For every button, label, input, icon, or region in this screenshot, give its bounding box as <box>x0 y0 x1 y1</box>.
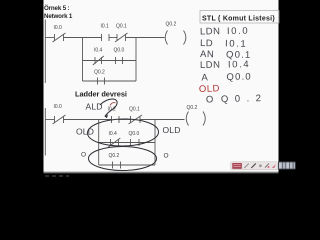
bottom ladder: rung1 wire left <box>45 119 54 121</box>
bottom ladder: contact Q0.0 (NO) <box>131 139 140 146</box>
white slide area <box>44 0 279 174</box>
top ladder: contact Q0.2 (NO) <box>98 78 105 85</box>
annotation ellipse E2 around branch3 <box>89 147 157 171</box>
top ladder: contact Q0.1 (NC) <box>115 33 128 42</box>
STL panel title box <box>200 11 279 24</box>
bottom ladder: contact I0.4 (NC) <box>108 138 120 147</box>
video black background <box>0 0 320 180</box>
svg-text:Ladder devresi: Ladder devresi <box>75 90 127 99</box>
bottom ladder: junction R vertical <box>154 120 156 166</box>
top ladder: wire contact I0.0 to contact I0.1 <box>64 37 102 39</box>
top ladder: output coil Q0.2 <box>165 31 186 45</box>
toolbar icon gray dot <box>259 164 262 167</box>
svg-text:STL ( Komut Listesi): STL ( Komut Listesi) <box>202 16 275 23</box>
svg-text:Q0.1: Q0.1 <box>116 24 127 30</box>
annotation ellipse E1 around branch1+branch2 <box>87 118 158 146</box>
ALD arrowhead <box>105 114 108 118</box>
toolbar right segment over black <box>278 162 296 170</box>
toolbar icon red pen <box>232 163 242 169</box>
top ladder: wire I0.1 to Q0.1 <box>109 37 117 39</box>
svg-text:O: O <box>81 152 86 159</box>
bottom ladder: contact Q0.2 (NO) <box>113 162 121 169</box>
svg-text:Q0.0: Q0.0 <box>129 131 140 137</box>
svg-text:Q0.2: Q0.2 <box>94 70 105 76</box>
bottom ladder: branch2 wire <box>99 142 155 144</box>
svg-text:I0.4: I0.4 <box>94 48 103 54</box>
toolbar icon pencil <box>244 164 249 168</box>
bottom ladder: contact I0.2 (NO) <box>112 116 120 123</box>
bottom ladder: output coil Q0.2 <box>186 112 205 126</box>
svg-text:Q0.0: Q0.0 <box>114 48 125 54</box>
svg-text:I0.4: I0.4 <box>109 131 118 137</box>
svg-text:O: O <box>164 153 169 160</box>
top ladder: contact I0.4 (NC) <box>93 56 104 65</box>
toolbar icon dark slash with pink dot <box>265 164 269 168</box>
top ladder: branch3 wire <box>83 80 137 82</box>
ALD arrow curve <box>100 99 117 117</box>
top ladder: junction A vertical <box>82 38 84 82</box>
top ladder: wire Q0.1 to coil <box>126 37 165 39</box>
svg-text:I0.0: I0.0 <box>54 25 63 31</box>
top ladder: rung1 wire left <box>45 37 54 39</box>
top ladder: contact I0.1 (NO) <box>102 34 110 41</box>
top ladder: contact Q0.0 (NO) <box>116 57 123 64</box>
red pen tick above I0.2 <box>110 103 116 106</box>
bottom ladder: branch3 wire <box>99 164 155 166</box>
svg-text:Network 1: Network 1 <box>44 13 73 20</box>
bottom ladder: wire I0.0 to I0.1 <box>64 119 112 121</box>
toolbar icon pen2 <box>251 163 256 168</box>
bottom ladder: contact Q0.1 (NC) <box>129 115 143 124</box>
bottom ladder: wire I0.2 to Q0.1 <box>119 119 131 121</box>
svg-text:Q0.1: Q0.1 <box>129 106 140 112</box>
bottom ladder: wire Q0.1 to coil <box>140 119 185 121</box>
bottom ladder: junction L vertical <box>98 120 100 166</box>
toolbar icon pink arrow <box>272 164 276 168</box>
top ladder: contact I0.0 (NC) <box>53 33 66 42</box>
svg-text:OLD: OLD <box>199 83 220 95</box>
svg-text:ALD: ALD <box>86 102 103 112</box>
bottom ladder: contact I0.0 (NC) <box>53 115 66 124</box>
svg-text:OLD: OLD <box>163 125 181 135</box>
top ladder: left power rail <box>44 20 46 84</box>
svg-text:Q0.2: Q0.2 <box>109 153 120 159</box>
svg-text:Q0.2: Q0.2 <box>187 105 198 111</box>
top ladder: branch2 wire <box>83 60 137 62</box>
bottom ladder: left power rail <box>44 108 46 156</box>
svg-text:Örnek 5 :: Örnek 5 : <box>44 5 70 12</box>
svg-text:Q0.2: Q0.2 <box>166 22 177 28</box>
player controls faint bottom-left <box>45 175 69 177</box>
svg-text:I0.0: I0.0 <box>54 104 63 110</box>
svg-text:OLD: OLD <box>76 127 94 137</box>
svg-text:I0.1: I0.1 <box>101 24 110 30</box>
annotation toolbar strip <box>231 162 296 170</box>
top ladder: junction B vertical <box>135 38 137 82</box>
